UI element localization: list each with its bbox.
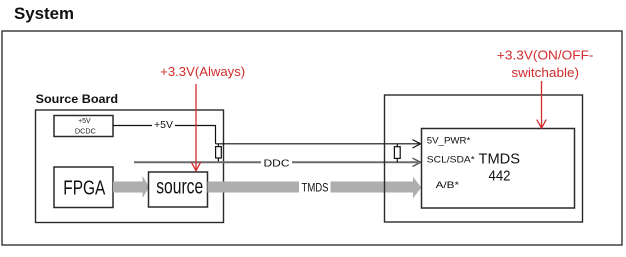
svg-text:+3.3V(Always): +3.3V(Always) xyxy=(160,65,245,79)
arrowhead 5V_PWR pin xyxy=(413,140,421,148)
svg-text:SCL/SDA*: SCL/SDA* xyxy=(427,155,475,166)
source block U3 xyxy=(149,172,208,207)
svg-text:TMDS: TMDS xyxy=(302,183,329,195)
red arrow always xyxy=(191,84,200,171)
svg-text:5V_PWR*: 5V_PWR* xyxy=(427,136,471,147)
svg-text:TMDS: TMDS xyxy=(479,151,521,168)
regulator U1 +5V DCDC box xyxy=(54,116,113,137)
wire +5V from DCDC (runs right then down) xyxy=(113,126,216,144)
bus label TMDS xyxy=(299,181,331,195)
resistor R1 (pull-up on DDC, left) xyxy=(216,144,222,163)
svg-text:DCDC: DCDC xyxy=(75,129,96,136)
svg-text:Source Board: Source Board xyxy=(36,94,119,106)
sink board box xyxy=(385,95,583,222)
wire DDC / SCL-SDA (gray) xyxy=(134,161,418,163)
svg-text:+5V: +5V xyxy=(154,119,173,131)
svg-text:DDC: DDC xyxy=(264,158,290,170)
svg-text:switchable): switchable) xyxy=(511,66,579,80)
svg-text:+5V: +5V xyxy=(78,118,91,125)
resistor R2 (pull-up on SCL/SDA, right) xyxy=(394,144,400,163)
wire 5V_PWR to sink xyxy=(216,143,420,145)
annotation +3.3V(ON/OFF-switchable) (red) xyxy=(497,49,594,81)
FPGA box U2 xyxy=(54,167,113,208)
wire label DDC xyxy=(261,156,292,170)
TMDS bus arrow FPGA to source (thick gray) xyxy=(113,176,149,198)
svg-text:+3.3V(ON/OFF-: +3.3V(ON/OFF- xyxy=(497,49,594,63)
svg-text:FPGA: FPGA xyxy=(63,177,106,199)
TMDS 442 switch U4 box xyxy=(422,129,575,209)
svg-text:source: source xyxy=(156,175,203,198)
arrowhead SCL/SDA pin xyxy=(413,158,421,166)
TMDS bus arrow source to sink (thick gray) xyxy=(208,177,422,198)
source board box xyxy=(36,110,224,223)
svg-text:442: 442 xyxy=(489,168,511,185)
wire label +5V xyxy=(152,118,175,131)
red arrow switchable xyxy=(537,81,546,128)
svg-text:A/B*: A/B* xyxy=(436,180,460,191)
svg-text:System: System xyxy=(14,4,74,23)
